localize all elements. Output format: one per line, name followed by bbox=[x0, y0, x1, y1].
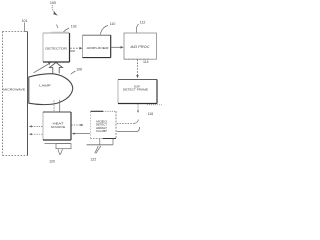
svg-text:106: 106 bbox=[76, 68, 82, 72]
svg-text:112: 112 bbox=[140, 21, 146, 25]
svg-text:120: 120 bbox=[49, 159, 55, 163]
svg-text:AMPLIFIER: AMPLIFIER bbox=[87, 46, 110, 50]
svg-text:114: 114 bbox=[143, 60, 149, 64]
svg-text:110: 110 bbox=[110, 22, 116, 26]
svg-text:122: 122 bbox=[90, 157, 96, 161]
svg-text:DETECT FRAME: DETECT FRAME bbox=[123, 88, 148, 92]
svg-text:100: 100 bbox=[50, 1, 56, 5]
svg-text:A/D PROC: A/D PROC bbox=[129, 45, 150, 49]
svg-text:LAMP: LAMP bbox=[39, 84, 51, 88]
svg-text:102: 102 bbox=[71, 25, 77, 29]
svg-text:CHIP: CHIP bbox=[96, 129, 107, 133]
svg-text:101: 101 bbox=[22, 19, 28, 23]
svg-text:SOURCE: SOURCE bbox=[51, 125, 66, 129]
svg-text:MICROWAVE: MICROWAVE bbox=[3, 88, 25, 92]
svg-text:DETECTOR: DETECTOR bbox=[45, 47, 67, 51]
svg-text:116: 116 bbox=[148, 112, 154, 116]
